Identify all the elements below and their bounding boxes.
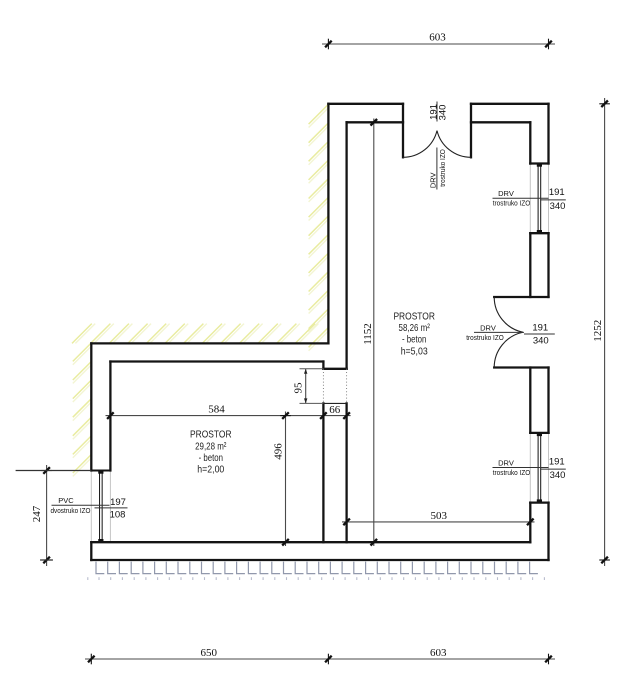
top door right jamb and leaf <box>470 104 472 158</box>
top door swing arcs <box>403 131 437 158</box>
svg-text:h=5,03: h=5,03 <box>401 346 428 357</box>
svg-text:247: 247 <box>31 505 43 522</box>
svg-text:108: 108 <box>110 509 126 520</box>
top door label DRV trostruko IZO rotated <box>436 148 438 190</box>
svg-text:66: 66 <box>329 404 341 416</box>
svg-text:1252: 1252 <box>592 320 604 342</box>
interior wall right face below opening <box>345 403 347 542</box>
svg-text:h=2,00: h=2,00 <box>197 465 224 476</box>
svg-text:trostruko IZO: trostruko IZO <box>438 149 447 187</box>
ground hatch below bottom wall <box>96 562 538 574</box>
interior wall left face below opening <box>322 403 324 542</box>
window sill lines (wall faces across openings) <box>91 164 548 543</box>
svg-text:DRV: DRV <box>498 189 514 198</box>
svg-text:340: 340 <box>550 201 566 212</box>
left wall outer edge <box>90 343 92 470</box>
svg-text:DRV: DRV <box>480 323 496 332</box>
right door swing arcs <box>494 297 523 332</box>
top wall outer edge (left of door) <box>328 103 403 105</box>
bottom wall left cap <box>90 542 92 560</box>
svg-text:trostruko IZO: trostruko IZO <box>493 468 531 477</box>
svg-text:496: 496 <box>273 443 285 460</box>
window 1 jambs <box>530 162 548 164</box>
svg-text:58,26 m²: 58,26 m² <box>399 323 431 334</box>
PVC window glazing <box>99 473 101 540</box>
wall junction step <box>322 362 324 369</box>
PVC opening top jamb <box>91 470 110 472</box>
window 2 glazing <box>537 435 539 500</box>
svg-text:197: 197 <box>110 497 126 508</box>
svg-text:340: 340 <box>550 470 566 481</box>
dimension 584 interior <box>106 415 351 417</box>
svg-text:PVC: PVC <box>58 496 74 505</box>
svg-text:340: 340 <box>437 105 448 121</box>
svg-text:191: 191 <box>549 187 565 198</box>
svg-text:trostruko IZO: trostruko IZO <box>493 199 531 208</box>
top door label 191/340 rotated <box>436 102 438 122</box>
right wall inner edge segments <box>529 122 531 163</box>
top door left jamb and leaf <box>402 104 404 158</box>
right wall outer edge segments <box>547 104 549 164</box>
svg-text:29,28 m²: 29,28 m² <box>195 441 227 452</box>
svg-text:DRV: DRV <box>498 458 514 467</box>
insulation hatch band, outside faces of upper-left walls <box>73 108 329 477</box>
right door label DRV trostruko IZO 191/340 <box>474 331 524 333</box>
dimension 650 bottom <box>85 658 555 660</box>
svg-text:650: 650 <box>201 647 218 659</box>
svg-text:trostruko IZO: trostruko IZO <box>466 333 504 342</box>
right door jambs and leaves <box>494 296 548 298</box>
window 1 label DRV trostruko IZO 191/340 <box>493 197 549 199</box>
left room top wall outer edge <box>91 342 328 344</box>
window 2 jambs <box>530 432 548 434</box>
interior opening dotted jambs <box>322 369 324 404</box>
bottom wall inner edge <box>91 541 530 543</box>
top wall inner edge (right of door) <box>471 121 530 123</box>
dimension 1252 right <box>604 98 606 566</box>
left wall inner edge <box>109 362 111 471</box>
dimension 1152 interior <box>373 119 375 547</box>
svg-text:- beton: - beton <box>402 335 427 346</box>
PVC window label PVC dvostruko IZO 197/108 <box>52 504 110 506</box>
window 2 label DRV trostruko IZO 191/340 <box>493 467 549 469</box>
svg-text:dvostruko IZO: dvostruko IZO <box>51 506 91 515</box>
svg-text:PROSTOR: PROSTOR <box>393 312 435 323</box>
top wall outer edge (right of door) <box>471 103 549 105</box>
svg-text:603: 603 <box>430 647 447 659</box>
interior opening bottom edge <box>323 402 346 404</box>
svg-text:191: 191 <box>549 456 565 467</box>
dimension 603 top <box>322 43 555 45</box>
svg-text:603: 603 <box>429 31 446 43</box>
right room left wall inner edge <box>345 122 347 368</box>
top wall inner edge (left of door) <box>347 121 403 123</box>
svg-text:340: 340 <box>533 335 549 346</box>
dimension 496 interior <box>285 412 287 547</box>
svg-text:DRV: DRV <box>428 172 437 188</box>
right room left wall outer edge <box>327 104 329 344</box>
window 1 glazing <box>537 166 539 231</box>
svg-text:95: 95 <box>292 382 304 394</box>
svg-text:503: 503 <box>430 510 447 522</box>
dimension 247 left <box>46 465 48 566</box>
left room top wall inner edge <box>110 360 323 362</box>
dimension 503 interior <box>342 521 535 523</box>
svg-text:PROSTOR: PROSTOR <box>190 430 232 441</box>
bottom wall outer edge <box>91 559 548 561</box>
svg-text:1152: 1152 <box>362 323 374 345</box>
svg-text:584: 584 <box>208 403 225 415</box>
svg-text:191: 191 <box>532 322 548 333</box>
svg-text:- beton: - beton <box>199 453 224 464</box>
dimension 95 interior opening <box>305 369 307 404</box>
